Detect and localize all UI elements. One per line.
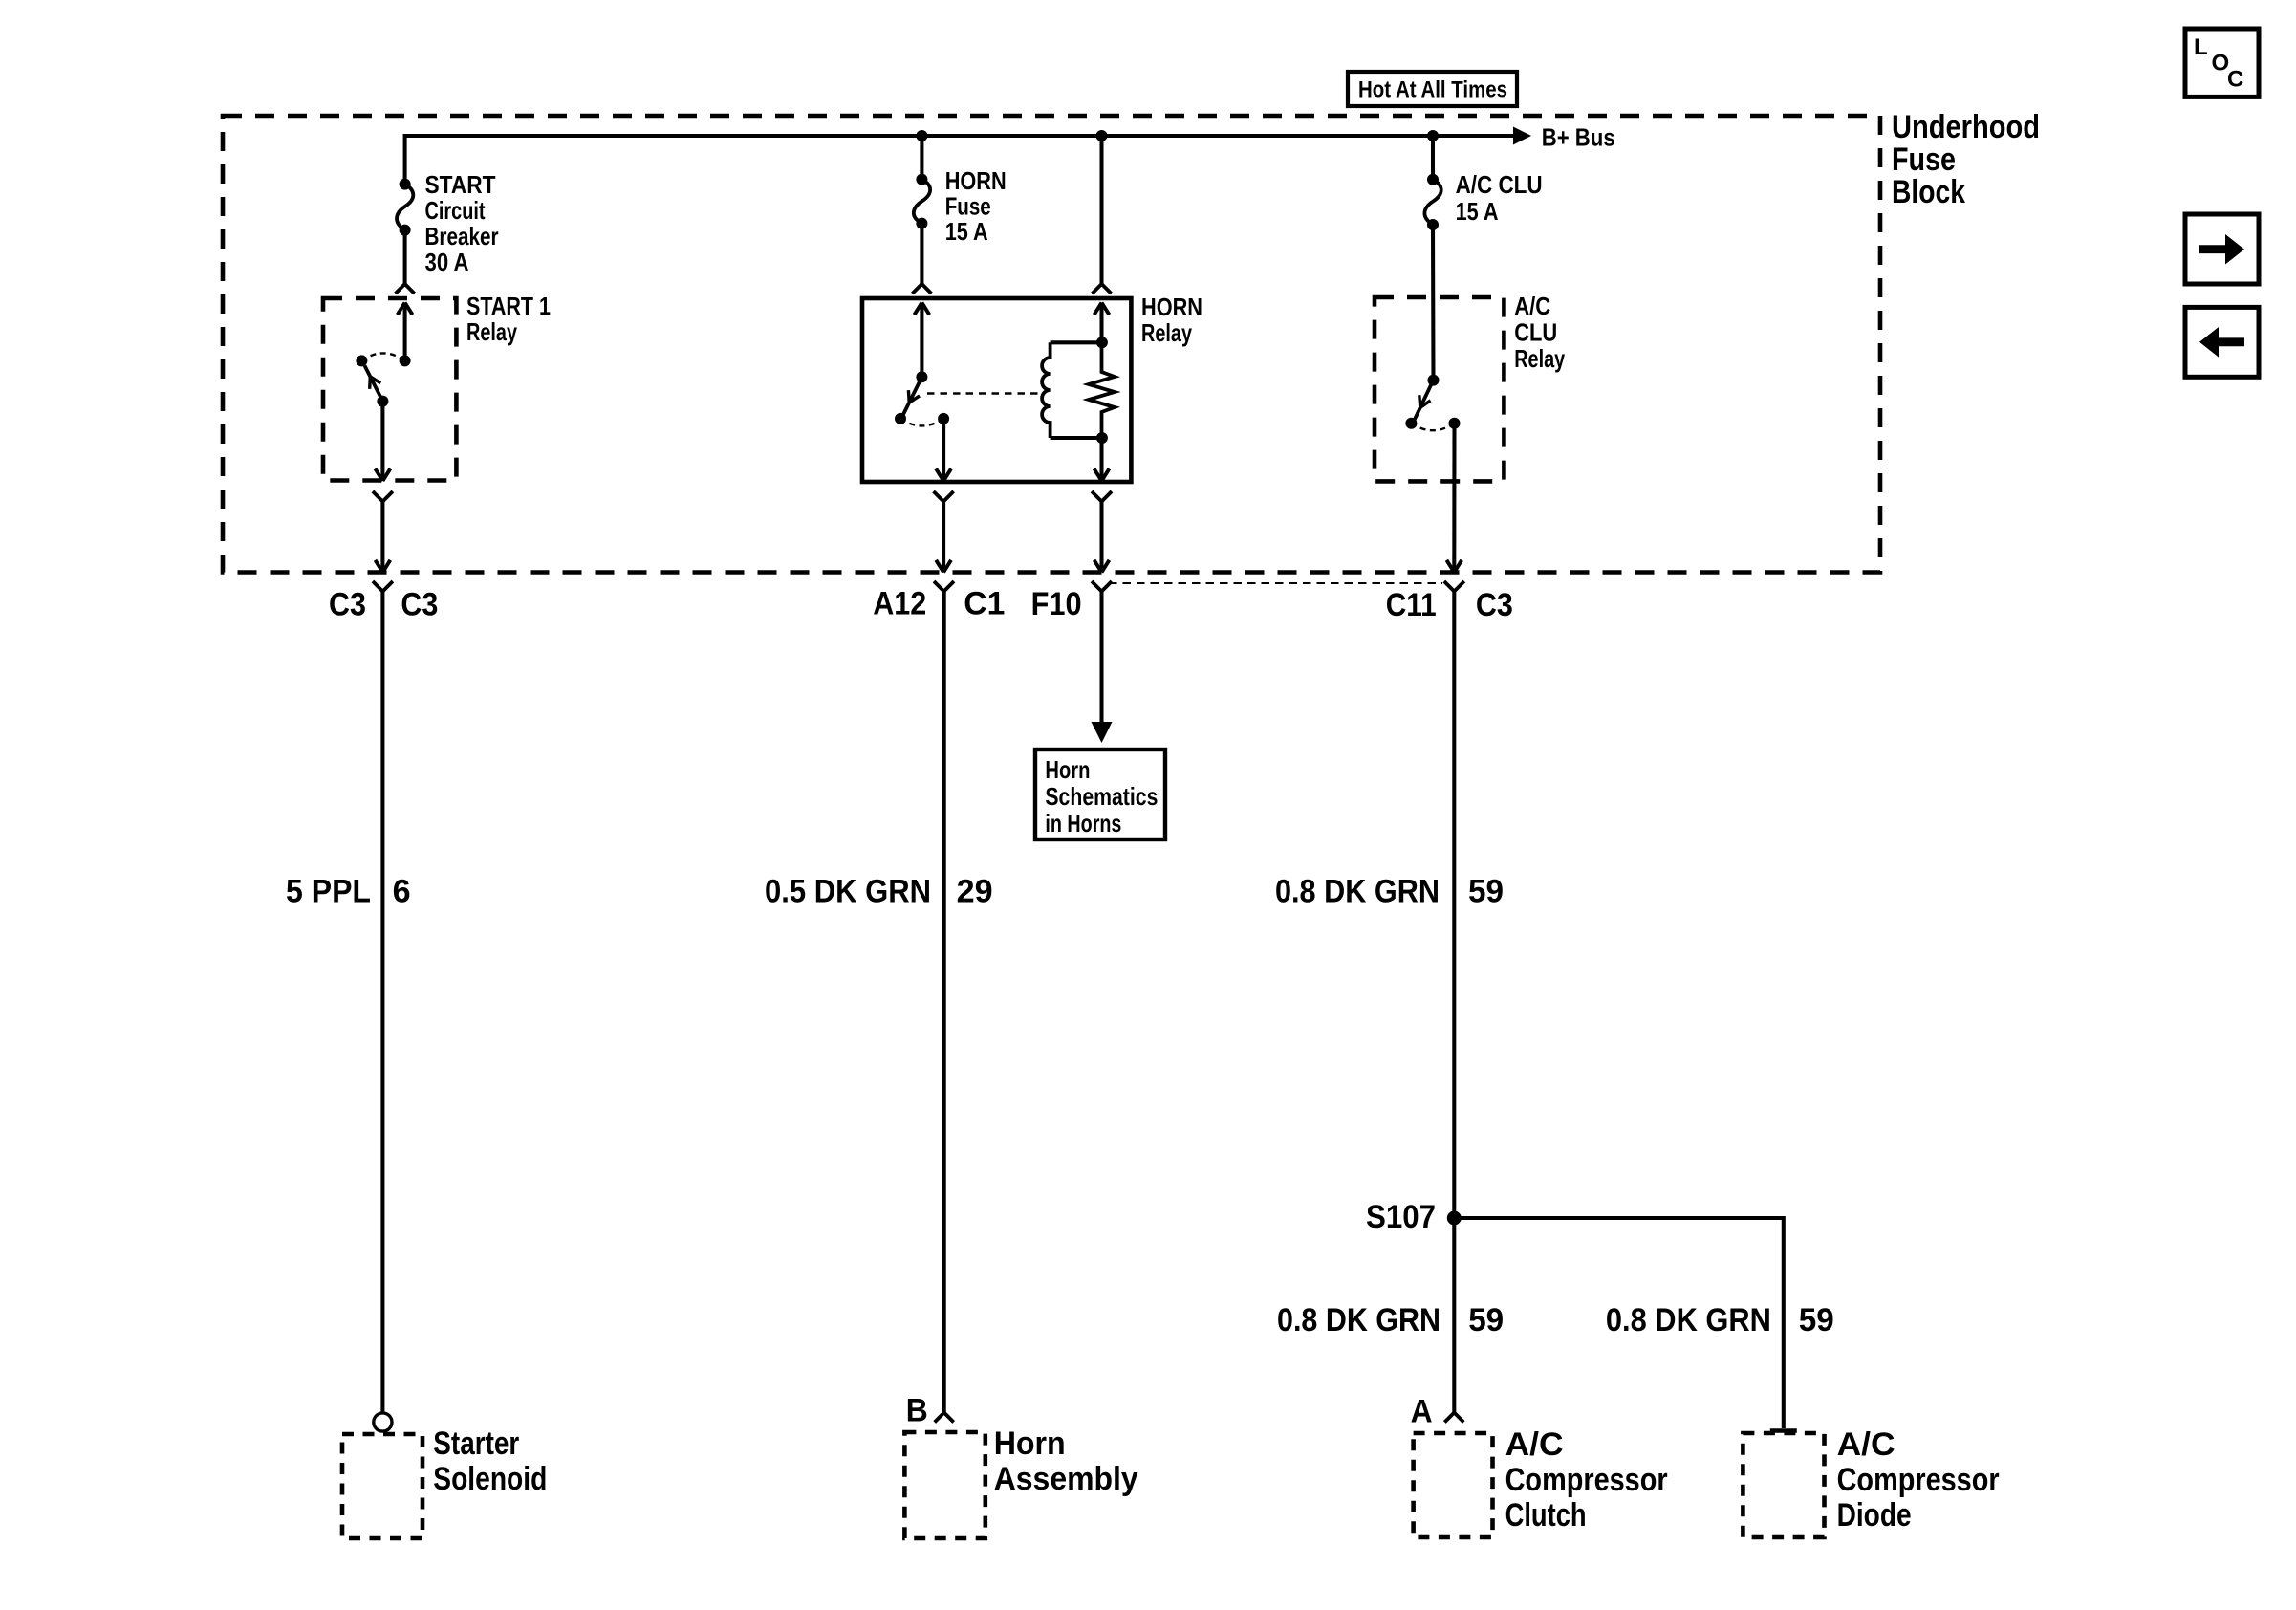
wire HORN coil output to fuse block edge	[1099, 502, 1103, 573]
relay START 1 dashed box	[323, 298, 456, 481]
connector female at Horn Assembly	[935, 1413, 944, 1423]
wire START 1 relay output to box edge	[380, 402, 384, 481]
svg-text:0.8 DK GRN: 0.8 DK GRN	[1275, 874, 1440, 910]
svg-text:HORN: HORN	[945, 166, 1007, 195]
svg-text:A/C: A/C	[1837, 1426, 1895, 1463]
previous page arrow	[2199, 327, 2244, 358]
svg-text:B+ Bus: B+ Bus	[1542, 123, 1615, 152]
arrowhead to Horn Schematics	[1092, 722, 1113, 743]
svg-text:A/C CLU: A/C CLU	[1456, 170, 1543, 199]
connector female below START 1 relay	[373, 491, 383, 502]
A/C Compressor Clutch dashed box	[1414, 1433, 1493, 1537]
HORN relay coil linkage dashed line	[927, 392, 1043, 394]
svg-text:S107: S107	[1366, 1199, 1436, 1235]
node START 1 relay common dot	[400, 355, 411, 366]
wire to A/C compressor clutch	[1452, 592, 1456, 1413]
Hot At All Times label box	[1348, 72, 1517, 106]
connector female A12-C1 below fuse block	[934, 581, 944, 592]
fuse HORN 15 A	[916, 174, 927, 185]
wire S107 branch to diode	[1454, 1218, 1784, 1428]
svg-text:C: C	[2227, 67, 2243, 93]
fuse A/C CLU 15 A	[1427, 174, 1439, 185]
node HORN relay switch pivot dot	[916, 371, 927, 382]
starter solenoid terminal circle	[374, 1413, 392, 1431]
wire male arrow into START 1 relay	[398, 303, 405, 315]
svg-text:Horn: Horn	[1045, 755, 1090, 784]
svg-text:Assembly: Assembly	[994, 1461, 1138, 1497]
svg-text:Fuse: Fuse	[945, 192, 991, 221]
svg-text:Underhood: Underhood	[1892, 109, 2040, 145]
svg-text:30 A: 30 A	[425, 248, 469, 276]
svg-text:Relay: Relay	[466, 317, 517, 346]
svg-text:6: 6	[393, 874, 411, 910]
svg-text:59: 59	[1468, 874, 1504, 910]
svg-text:Breaker: Breaker	[425, 222, 499, 250]
svg-text:Circuit: Circuit	[425, 196, 486, 225]
wire HORN fuse to relay	[920, 224, 923, 284]
svg-text:5 PPL: 5 PPL	[286, 874, 371, 910]
next page arrow icon box	[2185, 214, 2259, 284]
node START 1 relay output dot	[377, 396, 388, 407]
svg-text:0.5 DK GRN: 0.5 DK GRN	[765, 874, 931, 910]
node A/C relay output contact dot	[1449, 418, 1461, 429]
START 1 relay switch arm	[365, 366, 383, 402]
connector female F10 below fuse block	[1092, 581, 1102, 592]
svg-text:HORN: HORN	[1141, 293, 1202, 321]
svg-text:0.8 DK GRN: 0.8 DK GRN	[1606, 1302, 1771, 1338]
svg-text:Compressor: Compressor	[1505, 1462, 1668, 1498]
svg-text:Clutch: Clutch	[1505, 1497, 1587, 1534]
wire to starter solenoid	[380, 592, 384, 1413]
wire male arrow into HORN relay switch	[915, 303, 922, 315]
node HORN relay open contact dot	[895, 413, 906, 424]
wire breaker to START 1 relay	[403, 230, 407, 284]
svg-text:59: 59	[1799, 1302, 1834, 1338]
resistor HORN relay	[1089, 342, 1115, 438]
wire bus to A/C CLU fuse	[1431, 136, 1435, 180]
HORN relay coil top wire	[1051, 340, 1102, 344]
svg-text:START: START	[425, 170, 496, 199]
svg-text:29: 29	[957, 874, 993, 910]
wire HORN relay coil output to box edge	[1099, 438, 1103, 481]
svg-text:A/C: A/C	[1514, 292, 1550, 320]
previous page arrow icon box	[2185, 307, 2259, 377]
A/C compressor diode terminal bar	[1770, 1428, 1797, 1432]
connector female below HORN relay coil	[1092, 491, 1102, 502]
svg-text:15 A: 15 A	[945, 217, 988, 246]
svg-text:Schematics: Schematics	[1045, 782, 1158, 811]
svg-text:C1: C1	[964, 586, 1005, 622]
svg-text:CLU: CLU	[1514, 318, 1557, 347]
wire male arrow into HORN relay coil	[1094, 303, 1102, 315]
next page arrow	[2199, 234, 2244, 265]
node bus junction at HORN relay coil feed	[1096, 130, 1108, 141]
wire HORN switch output to fuse block edge	[942, 502, 945, 573]
Horn Assembly dashed box	[904, 1432, 985, 1538]
svg-text:A12: A12	[873, 586, 926, 622]
wire to horn assembly	[942, 592, 946, 1413]
wire B+ bus	[405, 136, 1513, 185]
connector female at A/C Compressor Clutch	[1444, 1413, 1454, 1423]
wire HORN relay switch output to box edge	[942, 419, 945, 481]
wire START relay to fuse block edge	[380, 502, 384, 573]
svg-text:C3: C3	[329, 587, 366, 623]
node START 1 relay open contact dot	[356, 355, 367, 366]
node HORN relay coil bottom junction	[1096, 432, 1108, 444]
connector female at HORN relay coil input	[1093, 284, 1102, 294]
svg-text:Relay: Relay	[1141, 318, 1192, 347]
connector female at HORN relay switch input	[912, 284, 921, 294]
svg-text:Compressor: Compressor	[1837, 1462, 2000, 1498]
svg-text:A: A	[1411, 1394, 1433, 1430]
circuit breaker START 30 A	[400, 179, 411, 190]
START 1 relay throw dashed arc	[361, 353, 404, 360]
svg-text:Starter: Starter	[433, 1425, 519, 1462]
connector female C3 below fuse block	[373, 581, 383, 592]
wire A/C relay output to fuse block edge	[1452, 424, 1456, 573]
svg-text:15 A: 15 A	[1456, 197, 1499, 226]
Horn Schematics in Horns reference box	[1035, 750, 1165, 839]
connector female at START 1 relay input	[396, 284, 405, 294]
thin dashed fuse block extension line	[1109, 582, 1442, 584]
svg-text:C3: C3	[401, 587, 438, 623]
svg-text:Relay: Relay	[1514, 344, 1565, 373]
svg-text:B: B	[906, 1393, 928, 1429]
A/C Compressor Diode dashed box	[1743, 1433, 1824, 1537]
wire HORN relay coil feed drop	[1099, 136, 1103, 284]
node HORN relay coil top junction	[1096, 337, 1108, 348]
svg-text:Block: Block	[1892, 174, 1965, 210]
node bus junction at HORN fuse	[916, 130, 927, 141]
node bus junction at A/C CLU fuse	[1427, 130, 1439, 141]
node S107 splice	[1447, 1211, 1462, 1226]
svg-text:Hot At All Times: Hot At All Times	[1358, 77, 1507, 103]
svg-text:C11: C11	[1386, 587, 1437, 623]
node A/C relay open contact dot	[1405, 418, 1417, 429]
A/C relay switch arm	[1414, 381, 1433, 421]
B+ bus arrowhead	[1513, 127, 1531, 145]
svg-text:C3: C3	[1476, 587, 1513, 623]
svg-text:Solenoid: Solenoid	[433, 1461, 547, 1497]
HORN relay switch arm	[903, 377, 922, 415]
HORN relay coil bottom wire	[1051, 436, 1102, 440]
svg-text:START 1: START 1	[466, 292, 551, 320]
connector female below HORN relay switch	[934, 491, 944, 502]
A/C relay throw dashed arc	[1411, 424, 1454, 431]
svg-text:in Horns: in Horns	[1045, 809, 1121, 838]
svg-text:F10: F10	[1031, 586, 1082, 622]
relay A/C CLU dashed box	[1375, 297, 1504, 481]
svg-text:59: 59	[1468, 1302, 1504, 1338]
relay HORN solid box	[862, 298, 1131, 482]
inductor HORN relay coil	[1042, 342, 1051, 438]
connector female C11-C3 below fuse block	[1444, 581, 1455, 592]
node HORN relay output contact dot	[938, 413, 949, 424]
wire bus to HORN fuse	[920, 136, 923, 180]
wire F10 to horn schematics reference	[1099, 592, 1103, 725]
svg-text:Diode: Diode	[1837, 1497, 1912, 1534]
Underhood Fuse Block dashed boundary	[223, 116, 1880, 573]
node A/C relay switch pivot dot	[1428, 375, 1440, 386]
HORN relay throw dashed arc	[900, 419, 943, 426]
LOC page icon box	[2185, 29, 2259, 97]
Starter Solenoid dashed box	[342, 1434, 422, 1538]
svg-text:Horn: Horn	[994, 1425, 1066, 1462]
svg-text:A/C: A/C	[1505, 1426, 1564, 1463]
wire A/C fuse to relay pivot	[1431, 225, 1436, 381]
svg-text:L: L	[2194, 34, 2208, 60]
svg-text:0.8 DK GRN: 0.8 DK GRN	[1277, 1302, 1440, 1338]
svg-text:Fuse: Fuse	[1892, 141, 1956, 178]
